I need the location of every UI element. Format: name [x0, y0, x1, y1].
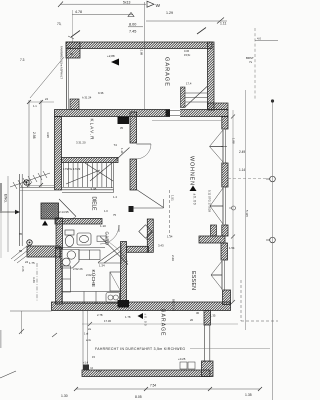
svg-text:1 ta: 1 ta [146, 237, 151, 241]
svg-text:EING.: EING. [4, 194, 8, 203]
wire: property line right [272, 101, 274, 400]
svg-text:24: 24 [45, 97, 48, 101]
wall: west wall upper [55, 117, 62, 191]
node: kitchen door diagonal [100, 237, 128, 265]
svg-text:1.14: 1.14 [239, 168, 245, 172]
node: staircase [62, 158, 118, 193]
node: gard door arc [100, 225, 119, 244]
svg-text:1.1: 1.1 [33, 104, 37, 108]
svg-text:1.51: 1.51 [170, 195, 174, 201]
svg-text:2.52 26: 2.52 26 [73, 267, 83, 271]
wall: essen corner pillar [223, 290, 231, 305]
node: chimney [41, 203, 59, 219]
node: cellar stair [98, 244, 121, 263]
wall: garage left (thin) [65, 49, 67, 110]
node: level mark carport [138, 313, 144, 319]
svg-text:1.78: 1.78 [125, 315, 131, 319]
node: wide opening diele-essen [137, 190, 164, 208]
svg-text:ESSEN: ESSEN [190, 271, 196, 290]
wire: left dim line 2 [40, 100, 42, 187]
wire: left outer dim line [7, 176, 9, 252]
svg-text:2.29: 2.29 [171, 255, 175, 261]
node: post upper [24, 180, 29, 185]
wall: east wall segment 2 [222, 163, 228, 187]
svg-text:GARAGE: GARAGE [160, 309, 166, 337]
svg-text:2.26: 2.26 [21, 266, 25, 272]
wall: wc north divider [55, 219, 102, 225]
node: entry arrow [1, 211, 15, 213]
node: level mark wohnen [190, 186, 197, 192]
node: basin [77, 233, 91, 245]
wire: dashed tick row [228, 178, 268, 180]
wall: essen east upper [221, 243, 228, 260]
node: tick right [197, 28, 206, 35]
node: stove [61, 250, 80, 269]
svg-text:4.0: 4.0 [257, 37, 261, 41]
svg-text:±0.00: ±0.00 [144, 314, 148, 326]
node: scan smudge left edge [0, 183, 2, 213]
node: door at stair room [118, 148, 130, 159]
svg-text:24: 24 [25, 260, 29, 264]
svg-text:1.11: 1.11 [220, 22, 226, 26]
wall: garage right [208, 42, 215, 110]
svg-text:DIELE: DIELE [91, 197, 97, 212]
svg-text:1.75: 1.75 [29, 261, 35, 265]
svg-text:95: 95 [19, 232, 23, 236]
wall: house south [52, 302, 231, 311]
svg-text:10: 10 [68, 46, 72, 50]
svg-text:BRST 30: BRST 30 [172, 299, 176, 311]
wire: wc floor line [59, 247, 105, 249]
svg-text:7.3: 7.3 [20, 58, 25, 62]
svg-text:GARAGE: GARAGE [164, 57, 170, 86]
svg-text:4.78: 4.78 [75, 10, 82, 14]
wire: line extending left from south wall [10, 310, 52, 312]
wall: carport right top [204, 311, 211, 326]
room label ESSEN [190, 271, 196, 290]
room label WOHNEN [189, 156, 195, 185]
wall: stair-room divider [62, 158, 119, 163]
svg-text:1.29: 1.29 [166, 11, 173, 15]
wire: durchfahrt dim line [82, 323, 238, 325]
wall: kitchen west [56, 248, 63, 305]
svg-text:W: W [156, 3, 161, 9]
wire: dashed line right of garage [254, 28, 256, 100]
room label DIELE [91, 197, 97, 212]
wall: gard east [147, 219, 153, 252]
wall: carport left (thin) [82, 311, 84, 371]
svg-text:2.14 95: 2.14 95 [59, 210, 69, 214]
node: wall dim text [46, 132, 50, 138]
svg-text:7.54: 7.54 [150, 384, 156, 388]
node: window east 3 [211, 260, 224, 290]
node: toilet [65, 230, 74, 247]
wall: garage south strip east of garage [208, 103, 229, 110]
wire: leader from pier to dims [30, 57, 64, 98]
node: black pier at hall wall top [118, 117, 130, 125]
node: entry marker triangle [42, 221, 48, 226]
svg-text:KLAV.R: KLAV.R [90, 119, 95, 141]
wire: top dimension line 1 [60, 3, 146, 5]
room label KUECHE [90, 270, 97, 288]
node: slope hatch bank [10, 171, 50, 189]
wall: hall/living divider upper [130, 112, 137, 143]
svg-text:1.34: 1.34 [167, 235, 173, 239]
svg-text:FAHRRECHT IN DURCHFAHRT 3,5m K: FAHRRECHT IN DURCHFAHRT 3,5m KIRCHWEG [95, 347, 185, 351]
wall: east wall segment 3 [222, 225, 228, 236]
node: fridge [110, 272, 121, 291]
node: north arrow W [147, 1, 161, 9]
wire: right dim line near wall [232, 110, 234, 302]
svg-text:h 31 24: h 31 24 [82, 96, 92, 100]
wire: left lower dashdot [36, 263, 38, 302]
wall: carport south [82, 370, 210, 377]
room label GARD [105, 232, 110, 246]
wall: garage-house jog stub [70, 99, 79, 110]
wire: vertical axis line [144, 2, 146, 109]
svg-text:1.30: 1.30 [61, 394, 68, 398]
node: duct in wall [211, 225, 217, 236]
svg-text:9.36: 9.36 [98, 91, 104, 95]
svg-text:74: 74 [114, 143, 118, 147]
svg-text:1.11: 1.11 [120, 148, 124, 154]
svg-text:0.36: 0.36 [184, 49, 190, 53]
wall: kitchen east [121, 242, 127, 305]
node: window east 1 [210, 129, 228, 163]
node: post lower [27, 240, 32, 245]
node: bottom-left diagonal [0, 371, 16, 378]
wire: top right boundary line [255, 40, 278, 42]
svg-text:+2,88: +2,88 [107, 54, 115, 58]
wall: east wall top segment [222, 117, 228, 130]
node: tick left [71, 31, 80, 38]
svg-text:FAHRWEG 3,5m ASPHALT: FAHRWEG 3,5m ASPHALT [60, 46, 64, 79]
node: gard shelf [97, 236, 106, 242]
svg-text:1.54: 1.54 [229, 246, 235, 250]
svg-text:1.88: 1.88 [232, 138, 236, 144]
wire: vertical ext line left [72, 10, 74, 42]
svg-text:7.45: 7.45 [129, 30, 136, 34]
svg-text:3.46: 3.46 [32, 277, 36, 283]
node: step marks carport [180, 362, 187, 369]
wall: kitchen/essen south stub [127, 246, 149, 252]
wall: carport south-west block [83, 365, 89, 371]
node: right vertical dim string [208, 190, 212, 212]
node: black pier south wall [118, 300, 130, 308]
svg-text:80: 80 [19, 249, 23, 253]
wire: dashed beam line [169, 190, 171, 236]
wire: dashed boundary corner [240, 280, 242, 321]
svg-text:5.115: 5.115 [245, 210, 249, 217]
node: vertical note left of garage [60, 46, 64, 79]
svg-text:8.00: 8.00 [129, 23, 136, 27]
wall: west wall at wc [56, 218, 63, 249]
wall: carport right (thin) [204, 325, 206, 362]
wall: garage top [66, 42, 212, 49]
svg-text:1.10: 1.10 [100, 224, 106, 228]
wall: house top [55, 110, 229, 117]
node: kitchen counter left [63, 266, 71, 292]
wire: left dim line 1 [28, 100, 30, 187]
svg-text:WOHNEN: WOHNEN [189, 156, 195, 185]
svg-text:17,4: 17,4 [186, 82, 192, 86]
wall: hall/living divider lower [130, 159, 137, 190]
node: kitchen counter top [79, 250, 100, 260]
node: outside steps sw [11, 246, 29, 263]
wall: garage left pier [66, 42, 80, 58]
wire: top dimension line 2 [72, 14, 133, 16]
node: garage level mark [111, 59, 119, 66]
svg-text:1.0: 1.0 [104, 209, 108, 213]
svg-text:2.78: 2.78 [97, 313, 103, 317]
svg-text:1 al: 1 al [84, 332, 89, 336]
svg-text:a 4x: a 4x [86, 338, 92, 342]
node: survey circle 2 [270, 237, 276, 243]
svg-text:30: 30 [70, 52, 74, 56]
wall: carport south-east block [202, 361, 214, 377]
svg-text:+0.25: +0.25 [178, 357, 186, 361]
svg-text:3.31 20: 3.31 20 [76, 141, 86, 145]
svg-text:5.11 STG 17.5/28: 5.11 STG 17.5/28 [208, 190, 212, 212]
wire: right dim line 2 [245, 90, 247, 330]
svg-text:GARD: GARD [105, 232, 110, 246]
svg-text:1.35: 1.35 [245, 393, 252, 397]
svg-text:3.98: 3.98 [46, 132, 50, 138]
node: corner basin diamond [139, 225, 152, 238]
svg-text:2.98: 2.98 [32, 132, 36, 139]
wall: porch south wall [27, 246, 60, 257]
svg-text:73,: 73, [57, 22, 62, 26]
node: porch edge lines [19, 174, 21, 246]
room label KLAV.R [90, 119, 95, 141]
svg-text:30: 30 [196, 311, 200, 315]
svg-text:17STG 17/29: 17STG 17/29 [63, 167, 81, 171]
wire: wohnen ceiling line [152, 119, 221, 121]
svg-text:1.35: 1.35 [210, 314, 216, 318]
node: window east 2 [210, 187, 225, 225]
svg-text:75: 75 [113, 213, 116, 217]
node: entrance door [59, 199, 76, 217]
node: survey circle 1 [270, 176, 276, 182]
node: door opening in top wall [170, 109, 180, 117]
svg-text:1.4: 1.4 [113, 195, 117, 199]
svg-text:3.43: 3.43 [158, 244, 164, 248]
svg-text:8.05: 8.05 [135, 395, 142, 399]
wire: top dimension line 3 [146, 20, 227, 22]
svg-text:+2.88: +2.88 [140, 48, 144, 56]
wall: wohnen/essen stub [199, 236, 225, 243]
wire: bottom dimension line [76, 388, 260, 390]
svg-text:2.49: 2.49 [239, 150, 245, 154]
node: kitchen counter bottom with sink [63, 292, 121, 304]
node: garage corner steps [185, 87, 208, 108]
room label GARAGE 2 [160, 309, 166, 337]
svg-text:±0.00: ±0.00 [193, 194, 197, 205]
room label GARAGE [164, 57, 170, 86]
svg-text:1.34: 1.34 [99, 264, 105, 268]
svg-text:x,41: x,41 [96, 369, 101, 373]
svg-text:15,5x: 15,5x [184, 53, 191, 57]
svg-text:5x13: 5x13 [123, 1, 130, 5]
node: door hall-living [137, 143, 152, 145]
svg-text:2.62: 2.62 [86, 273, 92, 277]
svg-text:17.30: 17.30 [104, 319, 111, 323]
svg-text:+1,4: +1,4 [83, 361, 89, 365]
svg-text:20: 20 [190, 318, 194, 322]
